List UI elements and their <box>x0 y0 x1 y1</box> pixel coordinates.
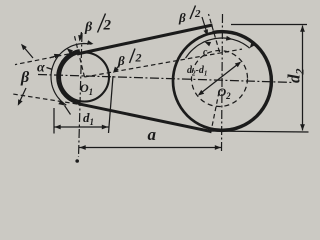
svg-text:2: 2 <box>135 51 142 65</box>
svg-text:c: c <box>203 47 208 58</box>
svg-text:α: α <box>37 61 45 76</box>
svg-text:2: 2 <box>194 8 201 20</box>
svg-text:β: β <box>84 20 93 35</box>
svg-text:a: a <box>148 125 157 144</box>
svg-text:2: 2 <box>103 18 112 34</box>
svg-text:β: β <box>178 10 186 25</box>
svg-text:β: β <box>117 53 125 68</box>
svg-text:β: β <box>20 69 30 86</box>
